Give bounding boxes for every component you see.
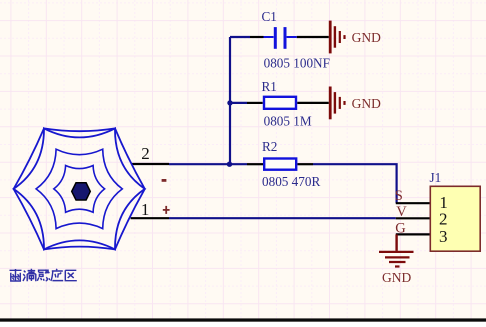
svg-text:S: S [395,188,403,204]
svg-text:3: 3 [439,227,448,246]
svg-text:GND: GND [352,96,381,111]
svg-text:R2: R2 [262,139,277,154]
svg-text:GND: GND [352,30,381,45]
svg-text:C1: C1 [262,9,277,24]
svg-text:R1: R1 [262,79,277,94]
svg-text:2: 2 [439,210,448,229]
svg-text:GND: GND [382,270,411,285]
svg-text:G: G [395,220,406,236]
svg-text:0805 470R: 0805 470R [262,174,320,189]
svg-text:J1: J1 [430,170,442,185]
svg-text:0805 100NF: 0805 100NF [264,55,330,70]
svg-text:1: 1 [141,200,150,219]
svg-text:2: 2 [141,144,150,163]
svg-text:0805 1M: 0805 1M [264,113,312,128]
svg-text:V: V [396,204,407,220]
